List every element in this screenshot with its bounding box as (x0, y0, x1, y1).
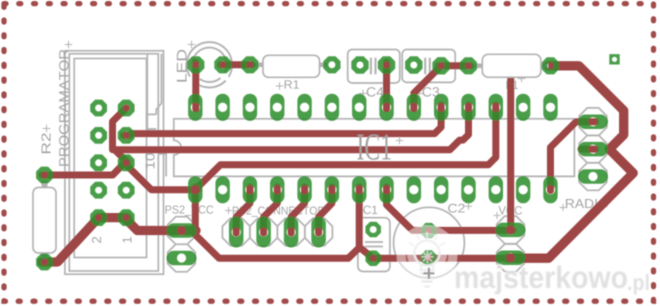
pad PROGRAMATOR pin L5 (90, 209, 107, 226)
pad IC1 pin6 (bottom) (325, 176, 339, 203)
pad L1.1 (460, 57, 477, 74)
LED outline arcs (187, 42, 232, 87)
pad IC1 pin7 (bottom) (352, 176, 366, 203)
capacitor C2 outline (394, 207, 465, 278)
pad PS2VCC.1 (167, 223, 197, 238)
label R1 (285, 80, 299, 88)
pad IC1 pin11 (bottom) (461, 176, 475, 203)
label PS2_VCC (166, 205, 214, 215)
wire IC pin5 to PS2 pad3 (291, 187, 304, 233)
octagon outline PS/2 connector pad1 (222, 218, 250, 246)
octagon outline RADIO pad2 (579, 135, 607, 163)
label RADIO (566, 199, 608, 208)
wire R2.1 to header pin5 (42, 162, 126, 175)
pad IC1 pin23 (top) (325, 94, 339, 121)
pad C1 - (365, 250, 381, 266)
pad IC1 pin15 (top) (543, 94, 557, 121)
wire R2.2 to header pin10 pin9 (42, 218, 127, 262)
op IC1 outline (174, 119, 575, 177)
pad IC1 pin2 (bottom) (215, 176, 229, 203)
pad via TP1 (609, 54, 619, 64)
label 1 (123, 237, 132, 243)
pad LED anode (187, 56, 204, 73)
pad PS2 connector pin2 (256, 217, 271, 248)
pad IC1 pin20 (top) (407, 94, 421, 121)
pad IC1 pin18 (top) (461, 94, 475, 121)
pad IC1 pin21 (top) (379, 94, 393, 121)
watermark glow (397, 226, 457, 286)
pad IC1 pin5 (bottom) (297, 176, 311, 203)
wire C1.2 to C2.2 to VCC.2 (371, 255, 513, 262)
inductor L1 body (475, 54, 549, 77)
pad PROGRAMATOR pin L3 (90, 154, 107, 171)
wire header pin9 to PS2VCC (124, 218, 196, 231)
label C2 (448, 204, 465, 213)
pad PS2VCC.2 (167, 251, 197, 266)
wire C3.2 to L1.1 (439, 62, 471, 69)
wire C4.2 to IC pin21 (383, 63, 390, 110)
pad IC1 pin1 (bottom) (188, 176, 202, 203)
label PS2_CONNECTOR (233, 206, 325, 216)
octagon outline RADIO pad3 (579, 163, 607, 191)
pad PS2 connector pin4 (311, 217, 326, 248)
wire IC pin8 to C2.1 to VCC.1 (387, 187, 513, 230)
label PROGRAMATOR (59, 50, 69, 166)
pad IC1 pin9 (bottom) (407, 176, 421, 203)
pad PROGRAMATOR pin L2 (90, 127, 107, 144)
wire IC pin14 to RADIO pad1 (550, 122, 595, 191)
octagon outline RADIO pad1 (579, 108, 607, 136)
wire header pin5 to IC1 pin1 (124, 163, 197, 190)
connector PROGRAMATOR outline (65, 51, 166, 274)
octagon outline PS/2 connector pad3 (277, 218, 305, 246)
octagon outline VCC pad1 (497, 216, 525, 244)
wire C3.2 diag to IC pin20 (414, 66, 441, 109)
octagon outline PS2 VCC pad1 (168, 217, 196, 245)
label VCC (498, 206, 522, 214)
pad C2 - (421, 250, 437, 266)
watermark text (456, 266, 649, 295)
pad IC1 pin10 (bottom) (434, 176, 448, 203)
wire bus B to IC pin26 (113, 105, 469, 150)
pad IC1 pin28 (top) (188, 94, 202, 121)
wire L1.2 to RADIO zigzag to VCC.2 (508, 66, 633, 258)
wire LED.2 to R1.1 (221, 61, 253, 68)
pad C2 + (421, 223, 437, 239)
wire IC pin1 to bottom bus (195, 187, 348, 258)
label L1 (506, 81, 517, 89)
pad IC1 pin3 (bottom) (243, 176, 257, 203)
pad IC1 pin27 (top) (215, 94, 229, 121)
pad PROGRAMATOR pin R3 (118, 154, 135, 171)
capacitor C3 outline (402, 50, 455, 83)
pad RADIO.3 (578, 169, 608, 184)
wire header pin1 to pin5 vertical (113, 108, 128, 162)
pad IC1 pin19 (top) (434, 94, 448, 121)
pad IC1 pin8 (bottom) (379, 176, 393, 203)
pad C3.1 (405, 56, 422, 73)
pad PROGRAMATOR pin L4 (90, 182, 107, 199)
pad R2.1 (36, 167, 53, 184)
pad L1.2 (542, 57, 559, 74)
pad C4.1 (351, 56, 368, 73)
pad IC1 pin22 (top) (352, 94, 366, 121)
wire IC pin6 to PS2 pad4 (319, 187, 332, 233)
label R2 (41, 133, 50, 153)
wire LED.1 to IC pin28 (192, 63, 199, 110)
wire IC pin4 to PS2 pad2 (264, 187, 278, 233)
label C1 (363, 206, 377, 214)
pad VCC.1 (496, 223, 526, 238)
pad IC1 pin26 (top) (243, 94, 257, 121)
watermark bulb (415, 241, 440, 288)
pad IC1 pin14 (bottom) (543, 176, 557, 203)
wire branch to C1.2 (359, 247, 373, 258)
pad R1.1 (241, 56, 258, 73)
octagon outline VCC pad2 (497, 244, 525, 272)
octagon outline PS2 VCC pad2 (168, 244, 196, 272)
label IC1 (357, 134, 390, 160)
capacitor C1 outline (358, 218, 390, 272)
pad IC1 pin24 (top) (297, 94, 311, 121)
pad C1 + (365, 222, 381, 238)
pad C3.2 (432, 57, 449, 74)
C2 polarity plus (423, 268, 434, 279)
pad PROGRAMATOR pin R5 (118, 209, 135, 226)
pad VCC.2 (496, 251, 526, 265)
pad IC1 pin13 (bottom) (516, 176, 530, 203)
label 2 (92, 237, 101, 243)
pad RADIO.2 (578, 142, 608, 157)
octagon outline PS/2 connector pad4 (305, 218, 333, 246)
pad PROGRAMATOR pin L1 (90, 100, 107, 117)
pad PS2 connector pin3 (284, 217, 299, 248)
label 10 (145, 153, 154, 168)
label C3 (423, 87, 440, 97)
pad PROGRAMATOR pin R4 (118, 182, 135, 199)
pad PS2 connector pin1 (229, 217, 244, 248)
pad IC1 pin17 (top) (489, 94, 503, 121)
pad LED cathode (214, 56, 231, 73)
wire bus A header pin3 to IC pin27 (124, 105, 442, 135)
wire RADIO pad2 stub (581, 146, 596, 153)
pad C4.2 (378, 56, 395, 73)
pad R1.2 (323, 56, 340, 73)
pad R2.2 (36, 254, 53, 271)
pad IC1 pin12 (bottom) (489, 176, 503, 203)
resistor R1 body (256, 55, 327, 77)
pad IC1 pin16 (top) (516, 94, 530, 121)
capacitor C4 outline (348, 50, 400, 84)
pad PROGRAMATOR pin R1 (118, 100, 135, 117)
pad IC1 pin25 (top) (270, 94, 284, 121)
wire bus C IC pin1 to IC pin25 (195, 105, 496, 190)
resistor R2 body (33, 181, 56, 259)
pad RADIO.1 (578, 114, 608, 129)
octagon outline PS/2 connector pad2 (250, 218, 278, 246)
label C4 (367, 87, 384, 97)
wire L1 to VCC vertical (507, 66, 514, 231)
label LED (177, 50, 187, 82)
wire IC pin3 to PS2 pad1 (236, 187, 250, 233)
pad IC1 pin4 (bottom) (270, 176, 284, 203)
pad PROGRAMATOR pin R2 (118, 127, 135, 144)
wire IC pin7 to bottom bus (348, 187, 359, 258)
